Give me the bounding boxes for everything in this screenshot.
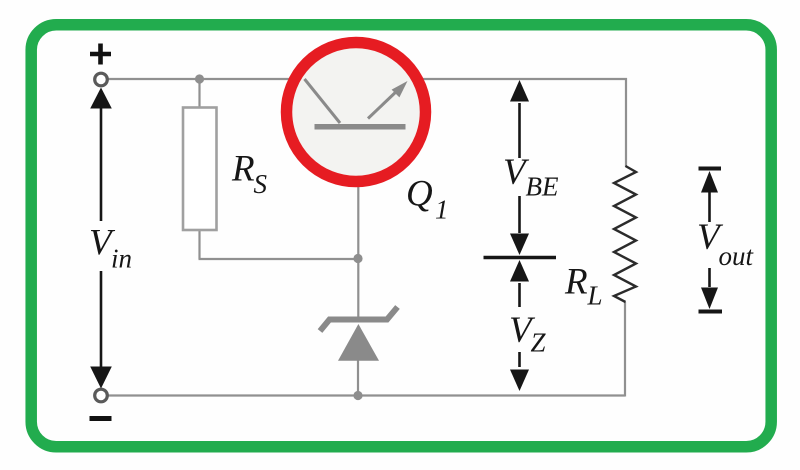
svg-text:1: 1: [435, 195, 449, 225]
svg-text:BE: BE: [526, 172, 559, 202]
svg-text:out: out: [719, 241, 755, 271]
svg-text:R: R: [564, 262, 588, 303]
svg-text:R: R: [231, 149, 255, 190]
svg-text:S: S: [254, 169, 268, 199]
svg-text:Z: Z: [531, 328, 547, 358]
svg-text:in: in: [111, 244, 132, 274]
svg-text:Q: Q: [406, 174, 433, 215]
svg-text:L: L: [587, 281, 603, 311]
